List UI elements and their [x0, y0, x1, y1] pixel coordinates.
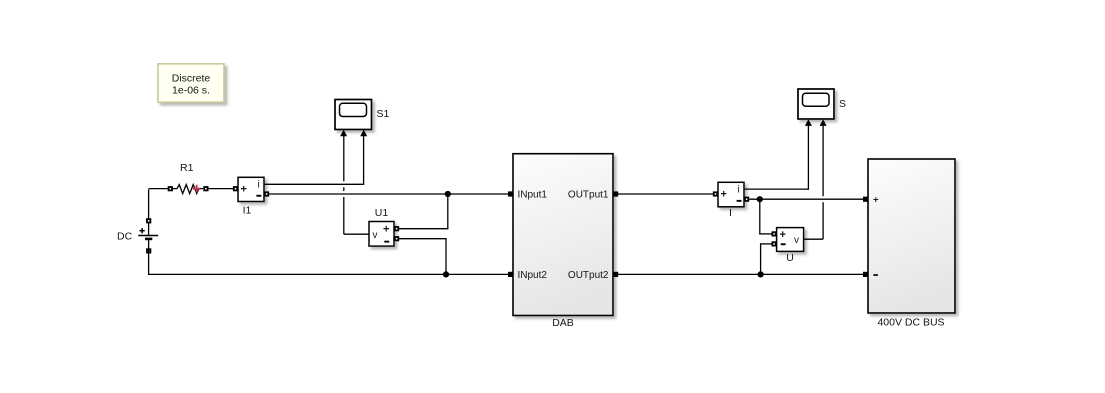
node: junction on INput2 wire: [443, 271, 449, 277]
wire: DAB OUTput2 to bus minus: [618, 273, 864, 275]
DAB converter block: [513, 154, 613, 329]
wire: I minus output to 400V bus plus: [749, 198, 864, 200]
wire: U1 v output to scope S1 left input (with crossover hops): [344, 135, 369, 234]
wire: junction down to U1 plus: [398, 194, 448, 229]
scope S input arrowhead right: [820, 119, 827, 126]
DAB port INput2: [508, 272, 513, 277]
wire: I1 minus output to DAB INput1: [269, 193, 510, 195]
svg-text:v: v: [373, 230, 378, 241]
DC port bottom: [146, 248, 151, 253]
scope S1: [335, 100, 390, 130]
wire: DAB OUTput1 to I plus input: [618, 193, 714, 195]
DC port top: [146, 218, 151, 223]
scope S1 input arrowhead left: [340, 130, 347, 137]
wire: DC plus up to R1 row: [149, 189, 177, 236]
wire: U v output to scope S right input (with crossover hop): [804, 125, 824, 240]
voltage sensor U: [777, 228, 804, 264]
voltage sensor U1: [369, 207, 394, 246]
node: junction on bus plus wire: [757, 196, 763, 202]
wire: U1 minus to junction on INput2 wire: [398, 238, 446, 274]
wire: I1 i output to scope S1 right input: [264, 135, 364, 185]
svg-text:400V DC BUS: 400V DC BUS: [877, 317, 944, 329]
bus port -: [863, 272, 868, 277]
svg-text:DAB: DAB: [552, 317, 574, 329]
wire: U minus to junction on bus minus wire: [761, 243, 772, 274]
I electrical port + (left): [713, 191, 718, 196]
U1 electrical port + (right top): [394, 226, 399, 231]
svg-text:S1: S1: [377, 108, 390, 120]
svg-text:OUTput1: OUTput1: [568, 190, 609, 201]
svg-text:OUTput2: OUTput2: [568, 270, 609, 281]
R1 port left: [168, 186, 173, 191]
bus port +: [863, 197, 868, 202]
node: junction on bus minus wire: [758, 271, 764, 277]
node: junction on INput1 wire: [445, 191, 451, 197]
wire: I i output to scope S left input: [744, 125, 808, 190]
svg-text:I1: I1: [243, 205, 252, 217]
annotation Discrete 1e-06 s.: [158, 64, 224, 102]
svg-text:+: +: [873, 195, 879, 206]
svg-text:R1: R1: [180, 162, 194, 174]
wire: DC minus down and bottom bus to DAB INput2: [148, 239, 510, 275]
U electrical port - (left bottom): [772, 241, 777, 246]
400V DC BUS block: [868, 159, 955, 329]
resistor R1: [177, 162, 203, 194]
U electrical port + (left top): [772, 231, 777, 236]
svg-text:DC: DC: [117, 231, 133, 243]
svg-text:+: +: [383, 224, 389, 236]
svg-text:v: v: [794, 235, 799, 246]
svg-text:INput2: INput2: [518, 270, 548, 281]
DAB port OUTput1: [613, 191, 618, 196]
wire: R1 to I1 plus input: [209, 188, 235, 190]
svg-text:I: I: [729, 207, 732, 219]
svg-text:+: +: [780, 229, 786, 241]
scope S input arrowhead left: [805, 119, 812, 126]
svg-text:i: i: [258, 180, 260, 191]
svg-text:U: U: [786, 252, 794, 264]
R1 red sample-time marker: [193, 185, 201, 193]
I electrical port - (right): [744, 197, 749, 202]
svg-text:+: +: [241, 183, 247, 195]
svg-text:1e-06 s.: 1e-06 s.: [172, 85, 210, 97]
svg-text:INput1: INput1: [518, 190, 548, 201]
current sensor I: [718, 182, 744, 219]
DC source battery: [117, 228, 158, 242]
scope S1 input arrowhead right: [360, 130, 367, 137]
I1 electrical port + (left): [233, 186, 238, 191]
U1 electrical port - (right bottom): [394, 236, 399, 241]
svg-text:i: i: [738, 185, 740, 196]
I1 electrical port - (right): [264, 191, 269, 196]
svg-text:S: S: [839, 98, 846, 110]
current sensor I1: [238, 177, 264, 216]
svg-text:+: +: [721, 188, 727, 200]
svg-text:U1: U1: [375, 207, 389, 219]
R1 port right: [203, 186, 208, 191]
svg-text:Discrete: Discrete: [172, 73, 211, 85]
scope S: [798, 89, 846, 119]
DAB port INput1: [508, 191, 513, 196]
wire: junction down to U plus: [759, 199, 772, 234]
DAB port OUTput2: [613, 272, 618, 277]
